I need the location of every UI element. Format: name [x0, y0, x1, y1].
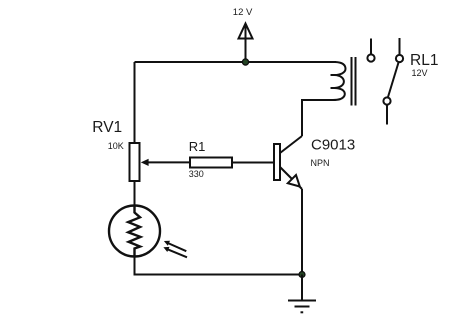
LDR light arrows	[163, 241, 187, 258]
transistor Q1 C9013	[274, 136, 302, 189]
wire coil bottom to collector	[302, 100, 333, 136]
svg-text:RV1: RV1	[92, 119, 122, 136]
svg-text:C9013: C9013	[311, 137, 355, 154]
svg-text:RL1: RL1	[410, 52, 438, 69]
relay core	[352, 57, 356, 106]
wire top rail	[135, 61, 337, 63]
svg-text:NPN: NPN	[311, 158, 330, 168]
LDR body	[109, 206, 160, 257]
potentiometer RV1	[130, 143, 140, 181]
svg-text:330: 330	[189, 169, 204, 179]
wiper arrow	[141, 159, 149, 166]
node junction bottom	[299, 272, 305, 278]
ground	[288, 275, 316, 313]
wire R1 to RV1 wiper	[148, 161, 191, 163]
wire left rail top	[134, 62, 136, 143]
power 12V arrow symbol	[239, 24, 253, 63]
svg-text:12 V: 12 V	[233, 7, 253, 18]
wire base to R1	[232, 162, 274, 164]
relay switch RL1	[367, 38, 403, 125]
resistor R1	[190, 158, 232, 168]
relay RL1 coil	[331, 62, 346, 100]
node junction top	[242, 59, 248, 65]
wire emitter to ground rail	[301, 189, 303, 275]
wire bottom rail	[135, 257, 303, 275]
svg-text:12V: 12V	[412, 68, 428, 78]
wire RV1 to LDR	[134, 181, 136, 207]
svg-text:R1: R1	[189, 139, 206, 154]
svg-text:10K: 10K	[108, 141, 124, 151]
